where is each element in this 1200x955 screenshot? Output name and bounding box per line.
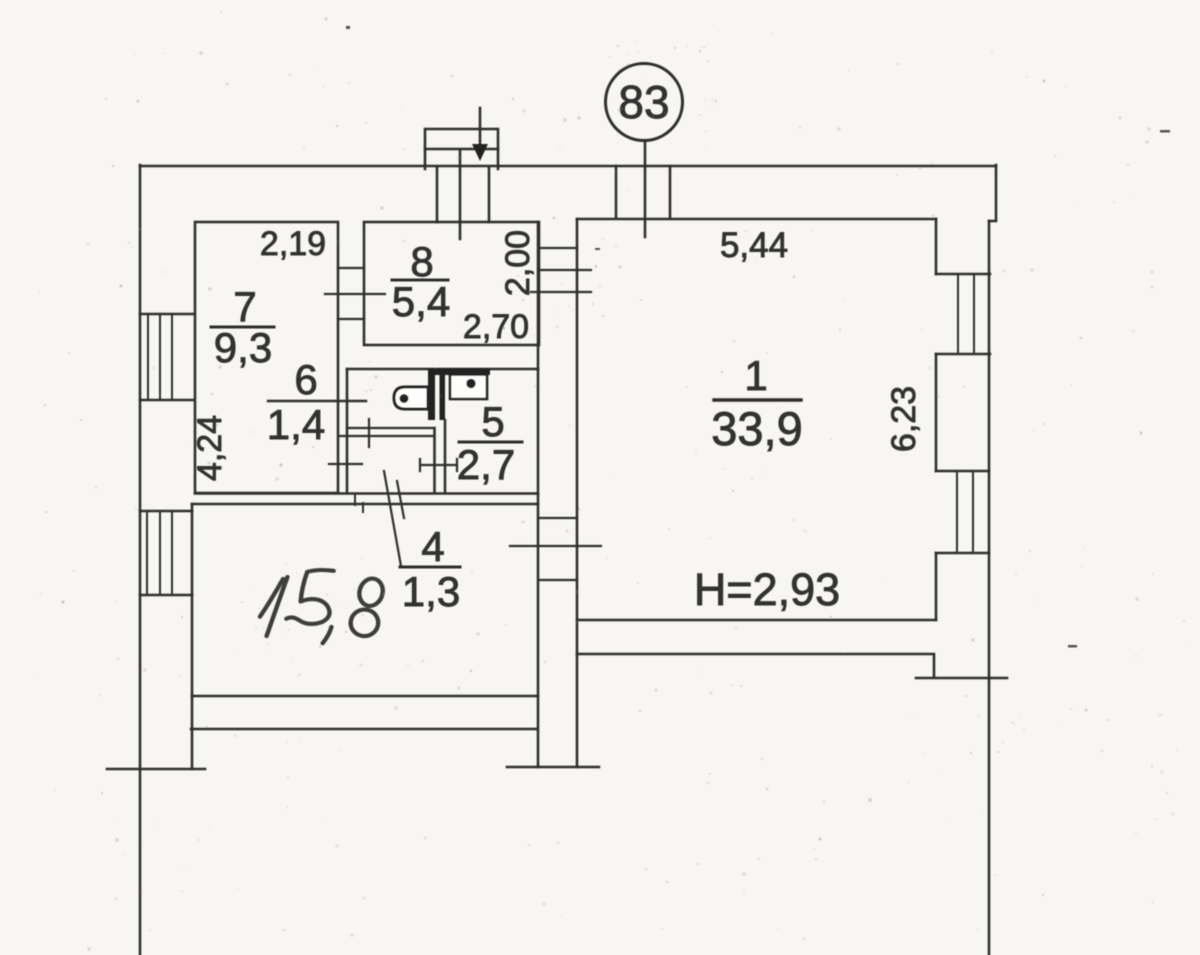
svg-text:83: 83 [618, 76, 669, 128]
svg-text:5: 5 [481, 398, 504, 445]
svg-text:2,7: 2,7 [457, 441, 515, 488]
svg-text:5,4: 5,4 [392, 278, 450, 325]
svg-text:1,3: 1,3 [402, 568, 460, 615]
svg-text:1,4: 1,4 [267, 401, 325, 448]
svg-text:2,00: 2,00 [499, 230, 537, 296]
svg-text:6: 6 [294, 356, 317, 403]
svg-text:6,23: 6,23 [885, 386, 923, 452]
svg-text:5,44: 5,44 [720, 226, 788, 265]
svg-text:H=2,93: H=2,93 [694, 564, 840, 615]
svg-text:9,3: 9,3 [214, 324, 272, 371]
svg-text:1: 1 [744, 352, 767, 399]
svg-text:7: 7 [233, 283, 256, 330]
svg-text:2,19: 2,19 [260, 225, 326, 263]
svg-text:4: 4 [421, 523, 444, 570]
svg-text:33,9: 33,9 [711, 402, 802, 455]
svg-text:4,24: 4,24 [191, 415, 229, 481]
svg-text:2,70: 2,70 [463, 308, 529, 346]
